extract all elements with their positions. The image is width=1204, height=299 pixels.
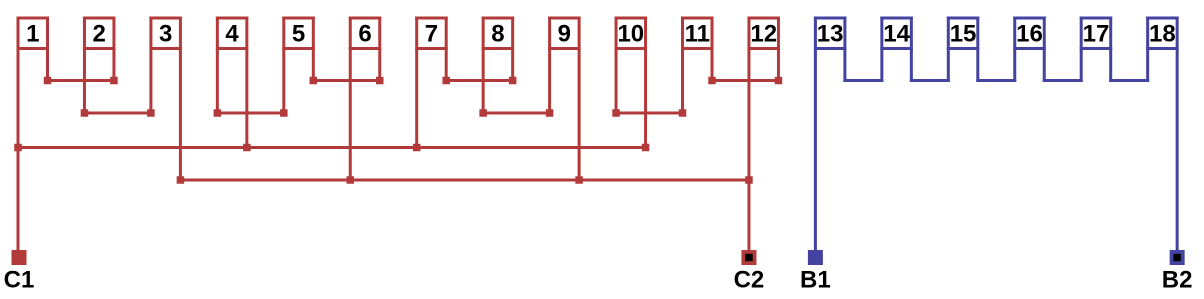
- svg-text:13: 13: [817, 21, 844, 48]
- svg-text:11: 11: [685, 21, 710, 48]
- coil 12: [747, 17, 780, 252]
- svg-text:4: 4: [225, 21, 239, 48]
- coil 10: [615, 17, 648, 150]
- junction 7R-8R left: [442, 77, 450, 85]
- coil 16: [1013, 17, 1046, 83]
- junction 8L-9L left: [479, 109, 487, 117]
- svg-text:7: 7: [425, 21, 438, 48]
- junction 5R-6R left: [310, 77, 318, 85]
- coil 3: [149, 17, 182, 182]
- coil 15: [947, 17, 980, 83]
- svg-text:C1: C1: [4, 267, 35, 294]
- wire 5R-6R: [312, 79, 381, 82]
- junction bus-C coil7L: [413, 144, 421, 152]
- wire 14R-15L: [910, 79, 950, 82]
- svg-text:2: 2: [93, 21, 106, 48]
- wire 10L-11L: [615, 112, 684, 115]
- svg-text:15: 15: [950, 21, 977, 48]
- wire 16R-17L: [1043, 79, 1083, 82]
- coil 11: [681, 17, 714, 115]
- junction 8L-9L right: [546, 109, 554, 117]
- svg-text:9: 9: [558, 21, 571, 48]
- coil 17: [1080, 17, 1113, 83]
- wire 2L-3L: [83, 112, 152, 115]
- junction 11R-12R right: [775, 77, 783, 85]
- coil 2: [83, 17, 116, 115]
- wire 13R-14L: [843, 79, 883, 82]
- junction 1R-2R left: [44, 77, 52, 85]
- wire bus C2 side: [179, 179, 751, 182]
- svg-text:12: 12: [750, 21, 777, 48]
- junction 7R-8R right: [509, 77, 517, 85]
- junction bus-D coil9R: [575, 176, 583, 184]
- svg-text:C2: C2: [734, 267, 765, 294]
- junction bus-D coil6L: [347, 176, 355, 184]
- wire 8L-9L: [482, 112, 551, 115]
- wire 15R-16L: [976, 79, 1016, 82]
- svg-text:14: 14: [883, 21, 910, 48]
- coil 13: [814, 17, 847, 252]
- coil 7: [415, 17, 448, 150]
- junction bus-D coil12L: [745, 176, 753, 184]
- junction 4L-5L left: [214, 109, 222, 117]
- coil 4: [216, 17, 249, 150]
- svg-text:B2: B2: [1162, 267, 1193, 294]
- svg-text:17: 17: [1083, 21, 1110, 48]
- coil 14: [880, 17, 913, 83]
- svg-text:16: 16: [1016, 21, 1043, 48]
- svg-text:18: 18: [1149, 21, 1176, 48]
- terminal C1: [12, 250, 27, 265]
- wire bus C1 side: [17, 146, 648, 149]
- junction bus-C coil1L: [14, 144, 22, 152]
- junction 4L-5L right: [280, 109, 288, 117]
- junction 5R-6R right: [376, 77, 384, 85]
- coil 1: [17, 17, 50, 252]
- junction 11R-12R left: [708, 77, 716, 85]
- junction 10L-11L right: [679, 109, 687, 117]
- coil 5: [282, 17, 315, 115]
- terminal B2: [1170, 250, 1185, 265]
- svg-text:8: 8: [491, 21, 504, 48]
- junction bus-C coil4R: [243, 144, 251, 152]
- svg-text:6: 6: [358, 21, 371, 48]
- junction 2L-3L right: [147, 109, 155, 117]
- svg-text:B1: B1: [800, 267, 831, 294]
- coil 18: [1146, 17, 1179, 252]
- svg-text:10: 10: [617, 21, 644, 48]
- junction 10L-11L left: [612, 109, 620, 117]
- junction 2L-3L left: [81, 109, 89, 117]
- terminal C2: [741, 250, 756, 265]
- terminal B1: [808, 250, 823, 265]
- junction bus-C coil10R: [642, 144, 650, 152]
- wire 11R-12R: [711, 79, 780, 82]
- junction bus-D coil3R: [177, 176, 185, 184]
- coil 8: [482, 17, 515, 115]
- junction 1R-2R right: [110, 77, 118, 85]
- svg-text:1: 1: [26, 21, 39, 48]
- wire 1R-2R: [46, 79, 115, 82]
- wire 4L-5L: [216, 112, 285, 115]
- wire 7R-8R: [445, 79, 514, 82]
- coil 9: [548, 17, 581, 182]
- svg-text:5: 5: [292, 21, 305, 48]
- wire 17R-18L: [1109, 79, 1149, 82]
- coil 6: [349, 17, 382, 182]
- svg-text:3: 3: [159, 21, 172, 48]
